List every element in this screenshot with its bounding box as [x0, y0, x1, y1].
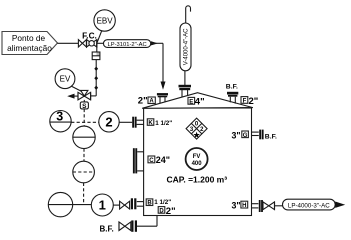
svg-text:EBV: EBV	[97, 16, 114, 25]
wire: from ball valve down	[96, 43, 98, 52]
nozzle G (right wall 3")	[252, 130, 264, 140]
svg-text:400: 400	[192, 161, 203, 167]
pipe label pill LP-4000-3"-AC	[283, 199, 336, 210]
gooseneck vent	[186, 6, 191, 23]
valve: 3-way solenoid valve	[78, 90, 91, 100]
svg-text:CAP. =1.200 m³: CAP. =1.200 m³	[167, 174, 228, 184]
hazard diamond NFPA	[186, 118, 207, 140]
nozzle B (bottom left 1 1/2")	[131, 198, 144, 209]
valve: ball valve F.C. (EBV)	[87, 40, 97, 47]
pipe label pill LP-3101-2"-AC	[97, 40, 151, 48]
label 2" A (roof left)	[138, 96, 156, 107]
svg-text:D: D	[159, 208, 164, 214]
node: feed point flag "Ponto de alimentação"	[2, 32, 58, 55]
instrument balloon EV	[55, 69, 82, 92]
nozzle D drain line	[156, 216, 158, 227]
level switch balloon (solid line)	[73, 126, 95, 148]
svg-text:2": 2"	[166, 206, 176, 217]
svg-text:FV: FV	[193, 154, 201, 160]
svg-text:24": 24"	[156, 155, 170, 165]
svg-text:alimentação: alimentação	[7, 43, 52, 53]
tank FV-400 body	[144, 108, 252, 216]
solenoid actuator S	[80, 100, 88, 110]
wire with diamond markers	[91, 60, 99, 96]
svg-text:3": 3"	[232, 130, 241, 140]
svg-text:2": 2"	[249, 96, 259, 107]
svg-text:A: A	[149, 99, 154, 105]
valve: product outlet	[263, 202, 275, 210]
flange at drain	[131, 220, 137, 231]
signal dashed: solenoid to switch line	[83, 109, 85, 126]
wire: pill to corner	[151, 42, 163, 44]
wire: to balloon 1	[73, 204, 92, 206]
signal dashed: between balloons 3 and 2	[71, 121, 99, 123]
nozzle A legs	[159, 97, 161, 104]
svg-text:B: B	[147, 201, 152, 207]
wire: circle 1 to valve	[113, 204, 119, 206]
svg-text:2: 2	[105, 114, 112, 129]
signal dashed	[83, 149, 85, 162]
svg-text:3": 3"	[232, 201, 241, 211]
pipe label pill V-4000-4"-AC (vertical)	[180, 23, 191, 71]
svg-text:B.F.: B.F.	[100, 224, 114, 233]
valve: B.F. drain valve	[119, 222, 131, 231]
svg-text:3: 3	[56, 110, 63, 124]
label F 2" (roof right)	[241, 96, 258, 107]
svg-text:E: E	[189, 99, 193, 105]
arrow down onto nozzle A	[161, 82, 166, 90]
label K 1 1/2"	[147, 119, 172, 127]
wire: flag to valves	[58, 42, 79, 44]
nozzle E flange (roof centre, 4")	[179, 85, 192, 90]
instrument balloon 3	[50, 110, 71, 132]
svg-text:Ponto de: Ponto de	[12, 33, 46, 43]
instrument balloon 1	[91, 194, 113, 216]
svg-text:G: G	[243, 133, 248, 139]
svg-text:4": 4"	[195, 97, 205, 108]
svg-text:F: F	[243, 99, 247, 105]
svg-text:V-4000-4"-AC: V-4000-4"-AC	[184, 28, 190, 65]
valve: at nozzle B	[120, 201, 130, 209]
label 3" H	[232, 201, 248, 211]
svg-text:H: H	[242, 203, 246, 209]
level switch balloon (dashed line)	[73, 161, 95, 183]
instrument balloon 2	[99, 112, 119, 132]
flow arrow right	[151, 41, 158, 45]
svg-text:1 1/2": 1 1/2"	[155, 120, 172, 127]
svg-text:B.F.: B.F.	[226, 84, 238, 91]
vent arrow to atmosphere	[67, 94, 78, 99]
label 3" G	[232, 130, 249, 140]
nozzle F legs	[229, 97, 231, 103]
signal dashed down	[83, 183, 85, 205]
nozzle H (right wall bottom 3")	[252, 200, 263, 212]
nozzle F flange (roof right)	[227, 92, 238, 97]
nozzle K (left wall 1 1/2")	[132, 117, 143, 128]
svg-text:S: S	[82, 103, 87, 110]
label B 1 1/2"	[146, 199, 171, 207]
svg-text:EV: EV	[60, 75, 71, 84]
level switch balloon (bottom left)	[48, 192, 72, 216]
valve: gate valve (left of F.C. pair)	[78, 40, 86, 47]
wire: valve to pill	[275, 205, 283, 207]
wire: circle 2 to nozzle K	[119, 121, 132, 123]
instrument balloon EBV	[94, 10, 115, 44]
wire: vent pipe	[184, 71, 186, 85]
svg-text:B.F.: B.F.	[265, 133, 277, 140]
svg-text:K: K	[148, 121, 153, 127]
manhole C 24"	[133, 148, 144, 173]
inline strainer / blind	[92, 52, 100, 60]
svg-text:LP-4000-3"-AC: LP-4000-3"-AC	[288, 202, 330, 209]
svg-text:2": 2"	[138, 96, 148, 107]
nozzle A flange (roof left)	[157, 93, 168, 97]
tank roof	[142, 93, 253, 109]
svg-text:1: 1	[99, 198, 106, 213]
svg-text:F.C.: F.C.	[82, 30, 97, 40]
flow arrow out	[335, 202, 345, 208]
wire: down to nozzle A	[162, 43, 164, 82]
equipment tag FV 400	[186, 148, 208, 170]
label E 4" (roof centre)	[188, 97, 205, 108]
svg-text:LP-3101-2"-AC: LP-3101-2"-AC	[108, 42, 147, 48]
svg-text:C: C	[149, 158, 154, 164]
label D 2"	[158, 206, 175, 217]
nozzle E legs	[181, 90, 183, 97]
label C 24"	[148, 155, 170, 165]
